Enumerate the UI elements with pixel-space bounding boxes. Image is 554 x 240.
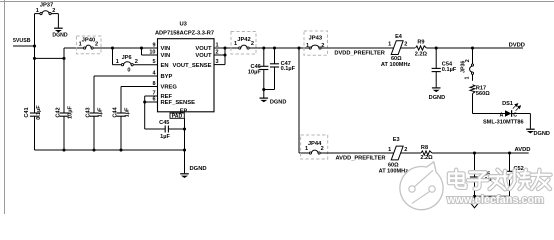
svg-text:C43: C43 <box>86 107 92 117</box>
svg-text:www.elecfans.com: www.elecfans.com <box>446 194 544 206</box>
svg-text:2: 2 <box>251 41 254 47</box>
svg-text:2: 2 <box>404 42 407 48</box>
svg-text:1µF: 1µF <box>98 107 104 117</box>
svg-text:DGND: DGND <box>270 100 286 106</box>
svg-text:C: C <box>513 112 517 118</box>
svg-text:9: 9 <box>152 42 155 48</box>
svg-text:2: 2 <box>52 8 55 14</box>
svg-text:DGND: DGND <box>52 33 68 39</box>
svg-text:DVDD_PREFILTER: DVDD_PREFILTER <box>334 51 384 57</box>
svg-text:DGND: DGND <box>534 131 550 137</box>
svg-text:E3: E3 <box>393 137 400 143</box>
svg-text:C45: C45 <box>159 120 169 126</box>
svg-text:VOUT: VOUT <box>195 53 212 59</box>
svg-text:10µF: 10µF <box>68 105 74 118</box>
svg-text:PAD: PAD <box>172 114 183 120</box>
svg-text:DGND: DGND <box>190 166 207 172</box>
svg-text:AT 100MHz: AT 100MHz <box>381 62 411 68</box>
svg-text:AVDD: AVDD <box>515 147 531 153</box>
svg-text:VOUT: VOUT <box>195 46 212 52</box>
svg-text:C42: C42 <box>56 107 62 117</box>
svg-text:AT 100MHz: AT 100MHz <box>379 168 409 174</box>
svg-text:8: 8 <box>152 81 155 87</box>
svg-text:C41: C41 <box>24 107 30 117</box>
svg-text:EN: EN <box>161 63 169 69</box>
svg-text:JP42: JP42 <box>237 37 251 43</box>
svg-text:R9: R9 <box>417 40 424 46</box>
svg-text:1: 1 <box>79 42 82 48</box>
svg-text:JP6: JP6 <box>122 55 132 61</box>
svg-text:C44: C44 <box>113 106 119 117</box>
svg-text:0: 0 <box>127 68 130 74</box>
svg-text:2.2Ω: 2.2Ω <box>420 155 433 161</box>
svg-text:1: 1 <box>388 42 391 48</box>
svg-text:5VUSB: 5VUSB <box>13 38 31 44</box>
svg-text:1: 1 <box>464 76 470 79</box>
svg-text:5: 5 <box>152 59 155 65</box>
svg-text:1: 1 <box>36 8 39 14</box>
svg-text:A: A <box>499 112 503 118</box>
svg-text:VOUT_SENSE: VOUT_SENSE <box>173 63 212 69</box>
svg-text:0.1µF: 0.1µF <box>442 67 457 73</box>
svg-text:JP40: JP40 <box>82 38 96 44</box>
svg-text:REF_SENSE: REF_SENSE <box>161 100 196 106</box>
svg-text:VREG: VREG <box>161 85 178 91</box>
svg-text:0.1µF: 0.1µF <box>281 66 296 72</box>
svg-text:1: 1 <box>116 59 119 65</box>
svg-text:2: 2 <box>404 147 407 153</box>
svg-text:AVDD_PREFILTER: AVDD_PREFILTER <box>336 155 386 161</box>
svg-text:ADP7158ACPZ-3.3-R7: ADP7158ACPZ-3.3-R7 <box>155 31 214 37</box>
svg-text:BYP: BYP <box>161 74 173 80</box>
svg-text:SML-310MTT86: SML-310MTT86 <box>483 120 524 126</box>
svg-text:JP43: JP43 <box>309 36 323 42</box>
svg-text:6: 6 <box>152 96 155 102</box>
svg-text:1: 1 <box>234 41 237 47</box>
svg-text:E4: E4 <box>395 34 403 40</box>
svg-text:JP37: JP37 <box>40 3 54 9</box>
svg-text:1µF: 1µF <box>125 107 131 117</box>
svg-text:2: 2 <box>135 59 138 65</box>
svg-text:560Ω: 560Ω <box>476 91 490 97</box>
svg-text:0.1µF: 0.1µF <box>36 105 42 120</box>
svg-text:10: 10 <box>149 49 155 55</box>
svg-text:10µF: 10µF <box>248 70 261 76</box>
svg-text:VIN: VIN <box>161 53 171 59</box>
svg-text:U3: U3 <box>179 22 187 28</box>
svg-text:1µF: 1µF <box>160 134 170 140</box>
svg-text:DVDD: DVDD <box>509 42 525 48</box>
svg-text:1: 1 <box>388 147 391 153</box>
svg-text:VIN: VIN <box>161 46 171 52</box>
svg-text:DS1: DS1 <box>502 101 513 107</box>
svg-text:2: 2 <box>95 42 98 48</box>
svg-text:R8: R8 <box>421 145 428 151</box>
svg-text:2.2Ω: 2.2Ω <box>415 51 428 57</box>
svg-text:1: 1 <box>305 146 308 152</box>
svg-text:2: 2 <box>465 59 471 62</box>
svg-text:1: 1 <box>306 43 309 49</box>
svg-text:DGND: DGND <box>429 95 445 101</box>
svg-text:2: 2 <box>321 146 324 152</box>
